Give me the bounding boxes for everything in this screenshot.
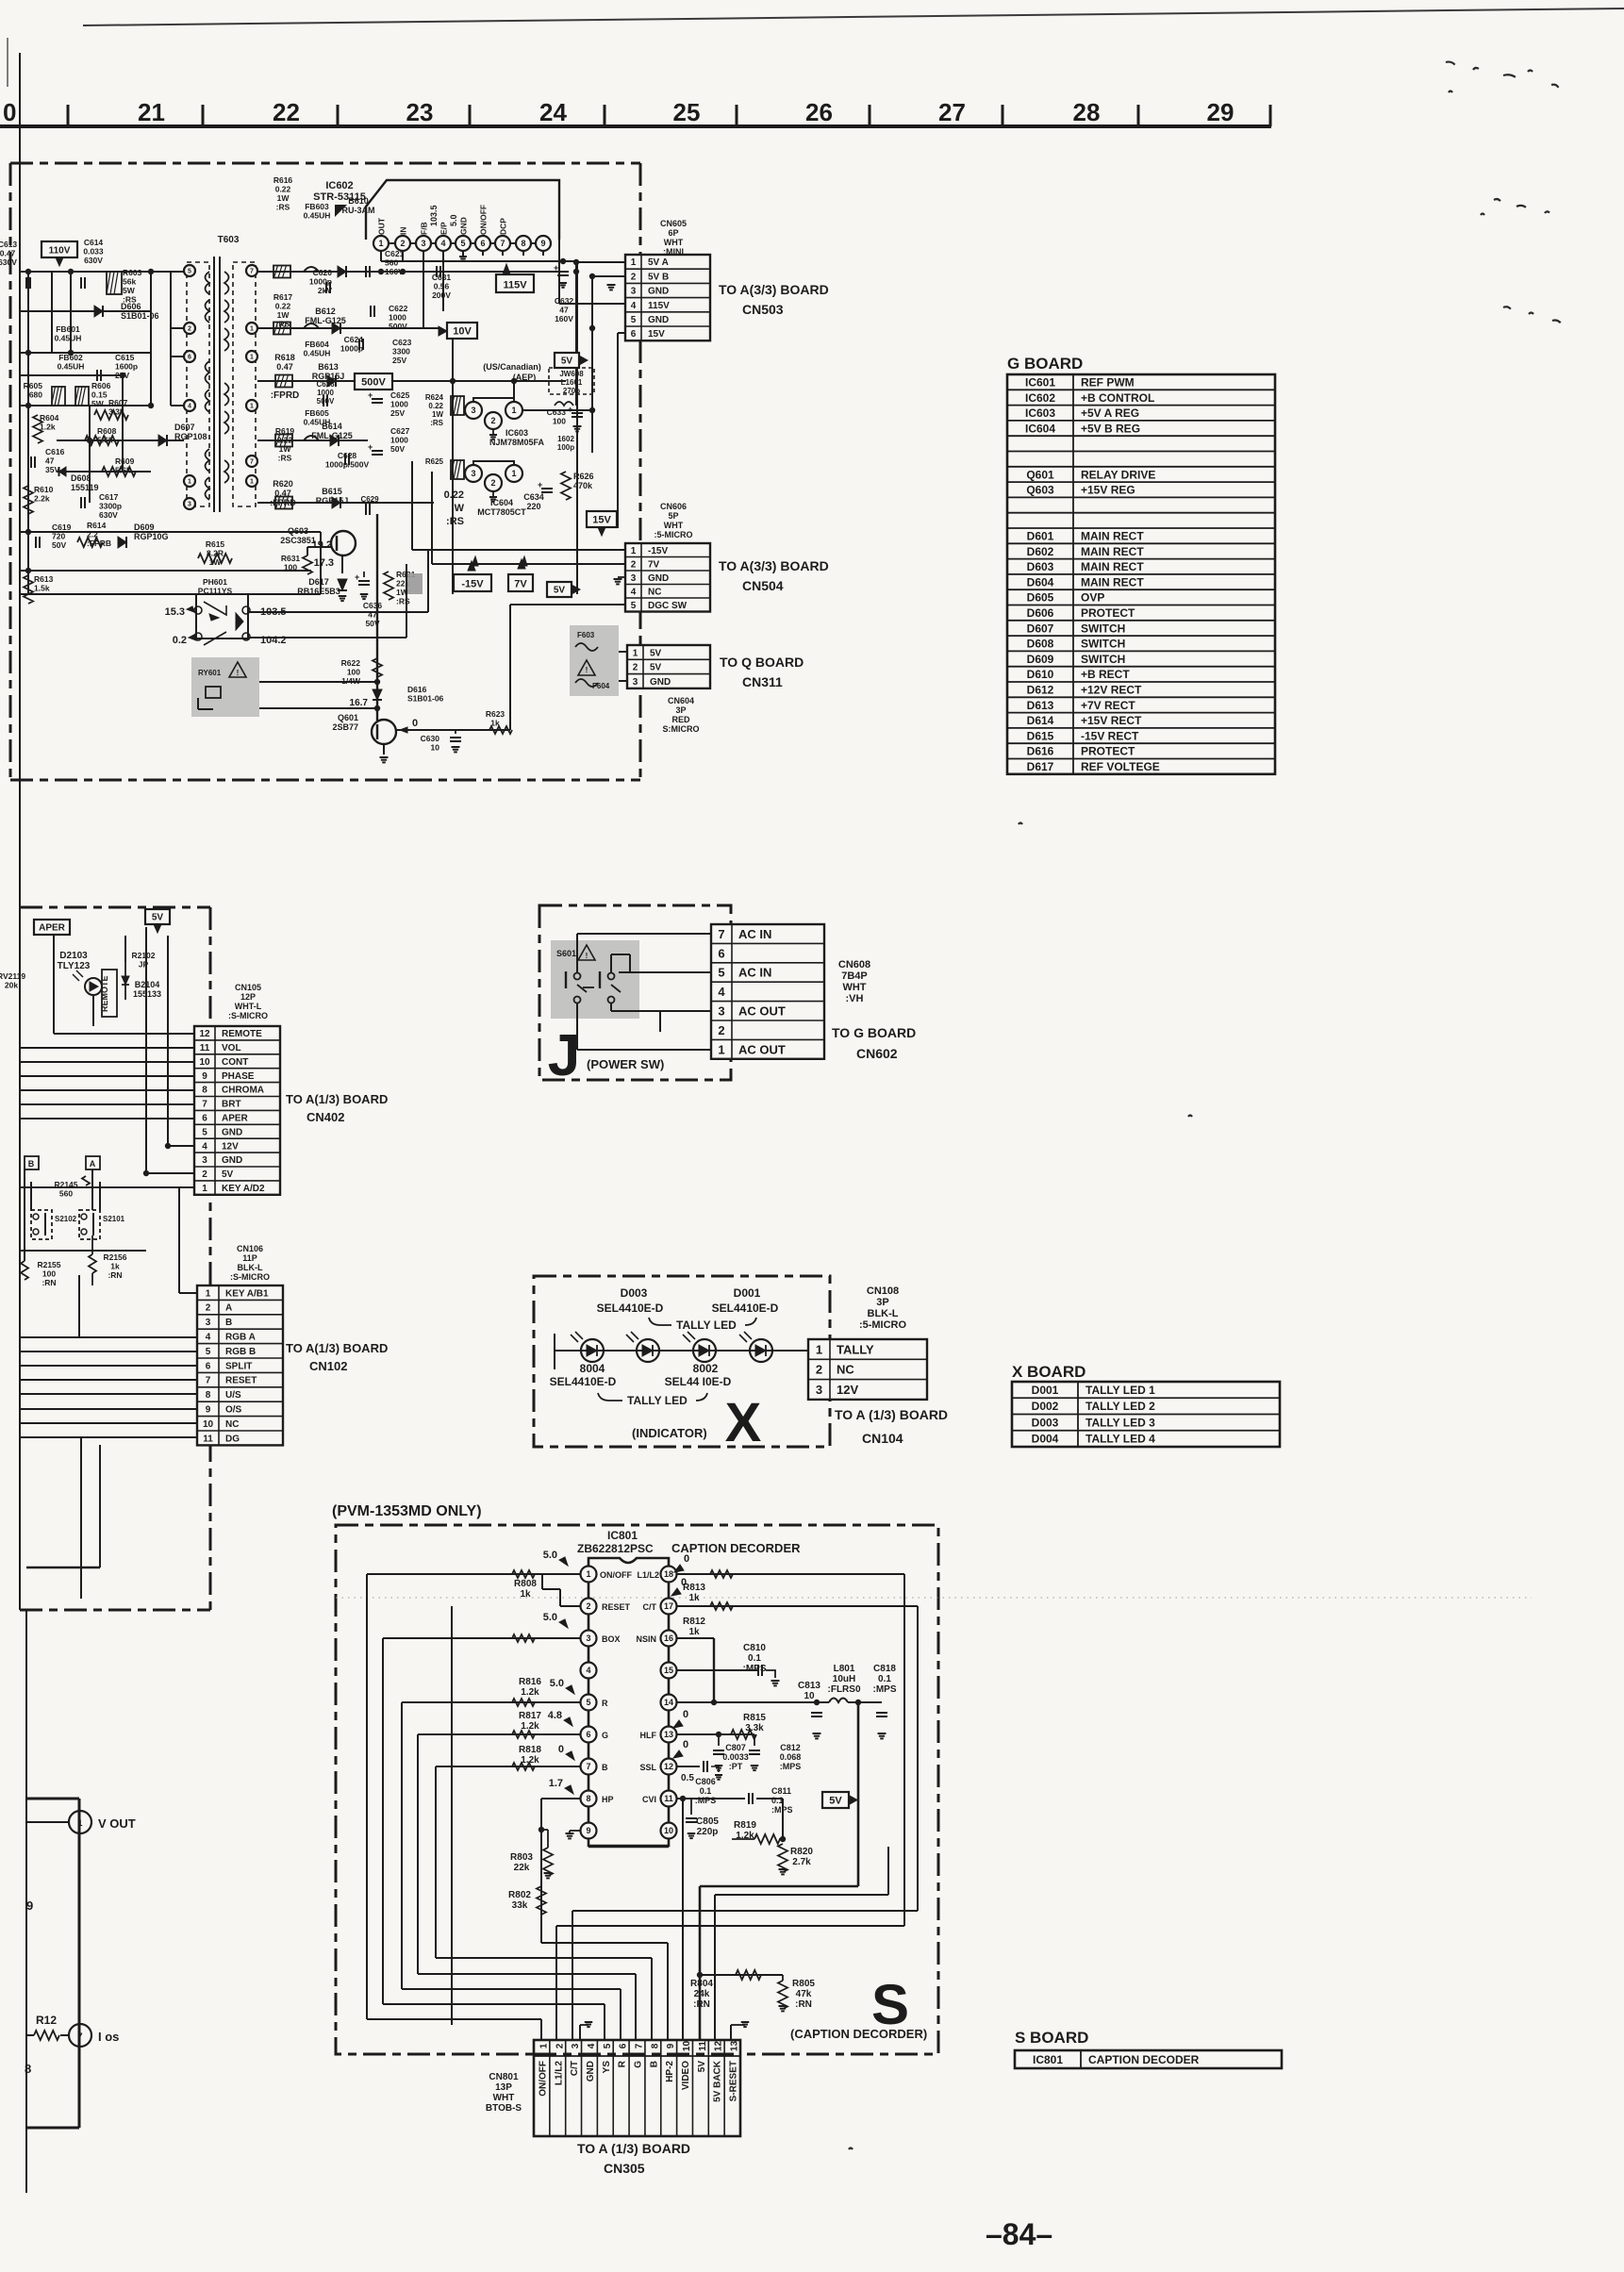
svg-text:SWITCH: SWITCH [1081,622,1125,635]
svg-text:ZB622812PSC: ZB622812PSC [577,1542,654,1555]
svg-text:5W: 5W [91,399,105,408]
svg-text:R604: R604 [40,413,59,423]
svg-text::FPRB: :FPRB [87,539,111,548]
svg-text:R12: R12 [36,2014,57,2027]
svg-text:0.45UH: 0.45UH [58,362,85,372]
svg-text:RGB A: RGB A [225,1333,256,1343]
R804 R805 network [700,1974,783,1976]
svg-text:C617: C617 [99,492,119,502]
svg-text:1: 1 [631,546,637,556]
svg-text:D001: D001 [734,1286,761,1300]
svg-text:10: 10 [431,743,440,753]
svg-text:5: 5 [206,1347,211,1357]
svg-text:CN311: CN311 [742,674,783,689]
svg-text::PT: :PT [729,1762,743,1771]
Ios pin [69,2024,91,2047]
svg-text:3: 3 [816,1383,822,1397]
svg-text:0.22: 0.22 [428,402,443,410]
PH601 wires [250,611,428,613]
switch wires to CN608 [576,934,578,972]
svg-text:8: 8 [521,239,525,248]
svg-text:D602: D602 [1027,545,1054,558]
svg-text:(AEP): (AEP) [513,373,537,382]
svg-text:CN106: CN106 [237,1244,263,1253]
svg-text:C615: C615 [115,353,135,362]
svg-text:NC: NC [837,1363,854,1377]
capacitor C813 [811,1712,822,1714]
svg-text:B615: B615 [322,487,342,496]
svg-text:15V: 15V [592,515,611,526]
svg-text:GND: GND [222,1127,242,1137]
svg-text::RN: :RN [795,1999,812,2010]
pin9 pin10 bottom wires [588,1838,589,1847]
5V callout on border [145,909,170,924]
svg-text:0.45UH: 0.45UH [55,334,82,343]
500V callout [355,373,392,390]
svg-text:BRT: BRT [222,1100,241,1110]
svg-text:21: 21 [138,98,165,126]
svg-text:C813: C813 [798,1681,820,1691]
svg-text:B: B [28,1159,35,1169]
V OUT pin [26,1798,79,1800]
svg-text:1: 1 [539,2043,549,2048]
LED D2103 symbol [85,978,102,995]
svg-text:CN402: CN402 [307,1110,344,1124]
jumper JW608 [549,368,594,394]
svg-text:13P: 13P [495,2082,512,2093]
svg-text:6: 6 [202,1113,207,1123]
svg-text:CVI: CVI [642,1795,656,1804]
connector CN108 [808,1339,927,1400]
svg-text:C812: C812 [780,1743,801,1752]
svg-text:7: 7 [206,1376,211,1386]
tally LED D004 [581,1339,604,1362]
svg-text:2: 2 [586,1601,590,1611]
svg-text:WHT: WHT [664,238,684,247]
svg-text:7: 7 [635,2043,645,2048]
svg-text:SEL4410E-D: SEL4410E-D [550,1375,617,1388]
svg-text:8: 8 [202,1086,207,1096]
resistor R616 [273,266,290,278]
svg-text:10V: 10V [453,326,472,338]
svg-text:4: 4 [586,1666,590,1675]
svg-text:2: 2 [400,239,405,248]
svg-text:23: 23 [406,98,434,126]
svg-text:0.5: 0.5 [681,1773,694,1783]
svg-text:RGB B: RGB B [225,1347,256,1357]
svg-text:C818: C818 [873,1664,896,1674]
svg-text:12V: 12V [837,1383,858,1397]
capacitor C620 [325,282,327,293]
svg-text:R2156: R2156 [103,1252,126,1262]
svg-text:1.5k: 1.5k [34,584,50,593]
svg-text:1000: 1000 [390,436,408,445]
svg-text:13: 13 [664,1730,673,1739]
svg-text:C623: C623 [392,338,412,347]
svg-text:C807: C807 [725,1743,746,1752]
tally LED D001 [750,1339,772,1362]
svg-text:D606: D606 [121,302,141,311]
svg-text:1: 1 [250,326,254,333]
svg-text:5V: 5V [697,2061,707,2073]
svg-text:GND: GND [650,677,671,688]
svg-text:CAPTION DECODER: CAPTION DECODER [1088,2053,1200,2066]
svg-text:D605: D605 [1027,591,1054,605]
svg-text:D617: D617 [308,577,329,587]
5V callout S block [822,1792,849,1808]
svg-text:C620: C620 [313,268,333,277]
svg-text:6: 6 [718,946,724,960]
diode D2102 [122,976,129,985]
svg-text:8: 8 [25,2062,31,2076]
svg-text:CN608: CN608 [838,959,870,970]
svg-text:B: B [225,1318,232,1328]
svg-text:R819: R819 [734,1820,756,1831]
capacitor C628 [344,454,346,465]
tally LED D002 [693,1339,716,1362]
svg-text:B613: B613 [318,362,339,372]
svg-text:PH601: PH601 [203,577,227,587]
wires mid [24,1169,25,1261]
REMOTE label box [102,970,117,1017]
svg-text:6P: 6P [668,228,678,238]
svg-text:R817: R817 [519,1711,541,1721]
resistor R604 [33,415,42,443]
svg-text:PHASE: PHASE [222,1071,255,1082]
svg-text:0.45UH: 0.45UH [304,211,331,221]
svg-text:D612: D612 [1027,683,1054,696]
svg-text:CN503: CN503 [742,302,784,317]
svg-text:D002: D002 [1032,1400,1059,1413]
5V rail vertical [857,1702,860,1886]
svg-text:1: 1 [511,469,516,478]
svg-text:12: 12 [199,1029,210,1039]
svg-text:L801: L801 [834,1664,855,1674]
svg-text:GND: GND [459,217,469,235]
svg-text:7: 7 [77,2032,82,2041]
switch S2102 [31,1210,52,1239]
svg-text:C626: C626 [316,380,335,389]
svg-text:2.7k: 2.7k [792,1857,811,1867]
svg-text:-15V RECT: -15V RECT [1081,729,1139,742]
svg-text:5.6k: 5.6k [115,466,131,475]
svg-text:1000: 1000 [390,400,408,409]
svg-text:D604: D604 [1027,575,1054,589]
svg-text:500V: 500V [317,397,335,406]
svg-text:C805: C805 [696,1816,719,1827]
svg-text:R606: R606 [91,381,111,390]
svg-text:9: 9 [586,1826,590,1835]
connector CN105 [194,1026,280,1195]
svg-text:-15V: -15V [461,579,484,590]
svg-text:4: 4 [440,239,445,248]
svg-text:1W: 1W [277,310,290,320]
wires to CN605 [576,261,625,263]
diode B610 [338,266,346,277]
svg-text:X: X [725,1392,762,1453]
wires leaving block bottom [80,1437,82,1599]
connector CN605 [625,255,710,340]
svg-text:SWITCH: SWITCH [1081,638,1125,651]
svg-text:0.2: 0.2 [173,635,187,646]
svg-text:D610: D610 [1027,668,1054,681]
svg-text:+12V RECT: +12V RECT [1081,683,1142,696]
svg-text::S-MICRO: :S-MICRO [230,1272,270,1282]
svg-text:C622: C622 [389,304,408,313]
svg-text:3: 3 [202,1155,207,1166]
resistor R620 [275,497,292,509]
svg-text::MPS: :MPS [771,1805,793,1815]
resistor R607 [94,410,128,420]
svg-text:0.0033: 0.0033 [722,1752,749,1762]
svg-text:1000p: 1000p [340,344,363,354]
svg-text:27: 27 [938,98,966,126]
svg-text:3300p: 3300p [99,502,122,511]
svg-text::FPRD: :FPRD [271,390,300,401]
svg-text:47: 47 [559,306,569,315]
svg-text:5.0: 5.0 [550,1678,564,1689]
svg-text:560: 560 [59,1189,73,1199]
svg-text:1000p: 1000p [309,277,332,287]
svg-text:RV2119: RV2119 [0,971,25,981]
transformer left feeder [170,272,172,406]
svg-text:APER: APER [39,923,66,934]
S601 warning triangle [578,945,595,960]
svg-text:7: 7 [202,1100,207,1110]
svg-text:APER: APER [222,1113,249,1123]
ground stub col13 [730,2025,732,2040]
svg-text:3P: 3P [876,1297,888,1308]
svg-text:1/4W: 1/4W [341,676,361,686]
svg-text::RS: :RS [276,320,290,329]
svg-text:L1/L2: L1/L2 [554,2061,564,2086]
svg-text:-15V: -15V [648,546,668,556]
svg-text:11: 11 [203,1434,213,1444]
svg-text:13: 13 [730,2041,740,2052]
svg-text:3300: 3300 [392,347,410,357]
svg-text:1: 1 [631,257,637,268]
capacitor C631 [436,266,438,277]
svg-text:C634: C634 [523,492,544,502]
svg-text:10: 10 [203,1419,214,1430]
svg-text:REMOTE: REMOTE [222,1029,262,1039]
resistor R820 [778,1844,787,1872]
svg-text:D614: D614 [1027,714,1054,727]
svg-text:3: 3 [471,469,475,478]
svg-text:SEL4410E-D: SEL4410E-D [712,1302,779,1315]
svg-text:1: 1 [250,355,254,361]
svg-text:630V: 630V [84,256,103,265]
svg-text:R622: R622 [341,658,361,668]
svg-text:CN104: CN104 [862,1431,903,1446]
svg-text:(US/Canadian): (US/Canadian) [483,362,541,372]
resistor R617 [273,323,290,335]
svg-text:RGP108: RGP108 [174,432,207,441]
svg-text:+5V A REG: +5V A REG [1081,406,1139,420]
svg-text:R812: R812 [683,1617,705,1627]
SSL pin12 network [677,1766,700,1767]
svg-text:3: 3 [633,677,638,688]
capacitor C634 [541,488,553,489]
resistor R631 [303,556,312,574]
capacitor C625 [372,398,383,400]
svg-text:5V: 5V [650,648,662,658]
svg-text:8.2R: 8.2R [207,549,224,558]
svg-text:104.2: 104.2 [260,635,287,646]
svg-text:680: 680 [29,390,42,400]
svg-text:0.1: 0.1 [700,1786,712,1796]
svg-text:D003: D003 [621,1286,648,1300]
svg-text:RED: RED [671,715,690,724]
svg-text:L1601: L1601 [561,378,583,387]
svg-text:IC603: IC603 [1025,406,1055,420]
svg-text:HP-2: HP-2 [665,2061,675,2082]
svg-text:0.22: 0.22 [277,436,293,445]
capacitor C818 [876,1712,887,1714]
svg-text:5P: 5P [668,511,678,521]
svg-text:25V: 25V [390,408,405,418]
svg-text:29: 29 [1207,98,1235,126]
svg-text::RS: :RS [396,597,410,606]
svg-text:REMOTE: REMOTE [100,975,109,1012]
svg-text:4: 4 [202,1141,207,1152]
svg-text:5.0: 5.0 [449,214,458,226]
svg-text:ON/OFF: ON/OFF [600,1570,632,1580]
svg-text:7: 7 [586,1762,590,1771]
svg-text:+: + [368,442,373,452]
svg-text:1: 1 [188,479,191,486]
svg-text:11: 11 [698,2041,708,2051]
connector CN106 [197,1285,283,1445]
svg-text:FML-G125: FML-G125 [311,431,353,440]
capacitor C627 [372,450,383,452]
switch S2101 [79,1210,100,1239]
svg-text:18: 18 [664,1569,673,1579]
svg-text:1k: 1k [688,1593,700,1603]
svg-text:X BOARD: X BOARD [1012,1363,1085,1381]
svg-text:R620: R620 [273,479,293,489]
svg-text:4: 4 [631,587,637,597]
svg-text:+B CONTROL: +B CONTROL [1081,391,1154,405]
svg-text:5V: 5V [554,586,566,596]
svg-text:R625: R625 [425,457,444,466]
svg-text:+: + [554,263,558,273]
svg-text:CN102: CN102 [309,1359,347,1373]
svg-text:R805: R805 [792,1979,815,1989]
col12 loop [715,1894,888,1896]
svg-text:7B4P: 7B4P [841,970,868,982]
svg-text:C632: C632 [555,296,574,306]
svg-text:CN108: CN108 [867,1285,899,1297]
svg-text:CONT: CONT [222,1057,248,1068]
svg-text:100: 100 [347,668,360,677]
resistor R626 [561,472,571,500]
svg-text:–84–: –84– [986,2217,1052,2251]
svg-text:D615: D615 [1027,729,1054,742]
svg-text:10: 10 [804,1691,815,1701]
svg-text:IC602: IC602 [1025,391,1055,405]
resistor R802 [537,1886,546,1915]
svg-text:1602: 1602 [557,435,574,443]
svg-text::RS: :RS [430,419,443,427]
svg-text:TO A(1/3) BOARD: TO A(1/3) BOARD [286,1092,388,1106]
svg-text:11P: 11P [242,1253,257,1263]
svg-text:SEL44 I0E-D: SEL44 I0E-D [665,1375,732,1388]
svg-text:R820: R820 [790,1847,813,1857]
svg-text:5V: 5V [222,1169,234,1180]
svg-text:2: 2 [490,478,495,488]
resistor R619 [275,435,292,447]
svg-text:FB603: FB603 [305,202,329,211]
relay RY601 shaded [191,657,259,717]
svg-text:5: 5 [460,239,465,248]
page left edge artifact [7,38,8,87]
svg-text:CN605: CN605 [660,219,687,228]
svg-text:C624: C624 [344,335,364,344]
svg-text:!: ! [237,669,240,677]
svg-text:TO Q BOARD: TO Q BOARD [720,655,804,670]
svg-text:D001: D001 [1032,1384,1059,1397]
svg-text:IC603: IC603 [505,428,528,438]
fold dotted line [336,1597,1532,1599]
diode D609 [118,537,126,548]
svg-text:0.56: 0.56 [434,282,450,291]
svg-text::RS: :RS [276,203,290,212]
svg-text:115V: 115V [503,280,527,291]
resistor R623 [489,726,512,734]
HP pin8 wire [541,1798,580,1799]
svg-text:8002: 8002 [693,1362,719,1375]
svg-text:6: 6 [480,239,485,248]
svg-text:!: ! [586,666,588,674]
X block dash-dot border [534,1276,830,1447]
svg-text:C614: C614 [84,238,104,247]
svg-text:1W: 1W [279,444,292,454]
wires to CN604 [619,651,627,653]
svg-text:R813: R813 [683,1583,705,1593]
svg-text:8: 8 [586,1794,590,1803]
svg-text:C621: C621 [385,249,405,258]
pin4 long vertical [451,1606,453,2025]
svg-text:WHT-L: WHT-L [235,1002,262,1011]
svg-text:1.2k: 1.2k [521,1687,539,1698]
svg-text:MAIN RECT: MAIN RECT [1081,575,1144,589]
svg-text:5: 5 [631,601,637,611]
svg-text:15V: 15V [648,329,665,340]
svg-text:9: 9 [206,1405,211,1416]
svg-text:10uH: 10uH [833,1674,855,1684]
svg-text:1: 1 [816,1342,822,1356]
svg-text:R: R [618,2060,628,2067]
svg-text:0.1: 0.1 [748,1653,761,1664]
svg-text:R605: R605 [24,381,43,390]
svg-text:5: 5 [586,1698,590,1707]
svg-text:NC: NC [225,1419,239,1430]
svg-text:100: 100 [42,1269,56,1279]
svg-text:0: 0 [558,1744,564,1755]
svg-text:0.45UH: 0.45UH [304,349,331,358]
svg-text:V OUT: V OUT [98,1816,136,1831]
svg-text:20k: 20k [5,981,18,990]
svg-text:MAIN RECT: MAIN RECT [1081,560,1144,573]
svg-text::5-MICRO: :5-MICRO [655,530,693,539]
G BOARD table [1007,374,1275,774]
svg-text:SWITCH: SWITCH [1081,653,1125,666]
svg-text:R610: R610 [34,485,54,494]
svg-text:17: 17 [664,1601,673,1611]
svg-text:3: 3 [188,502,191,508]
svg-text:+B RECT: +B RECT [1081,668,1130,681]
